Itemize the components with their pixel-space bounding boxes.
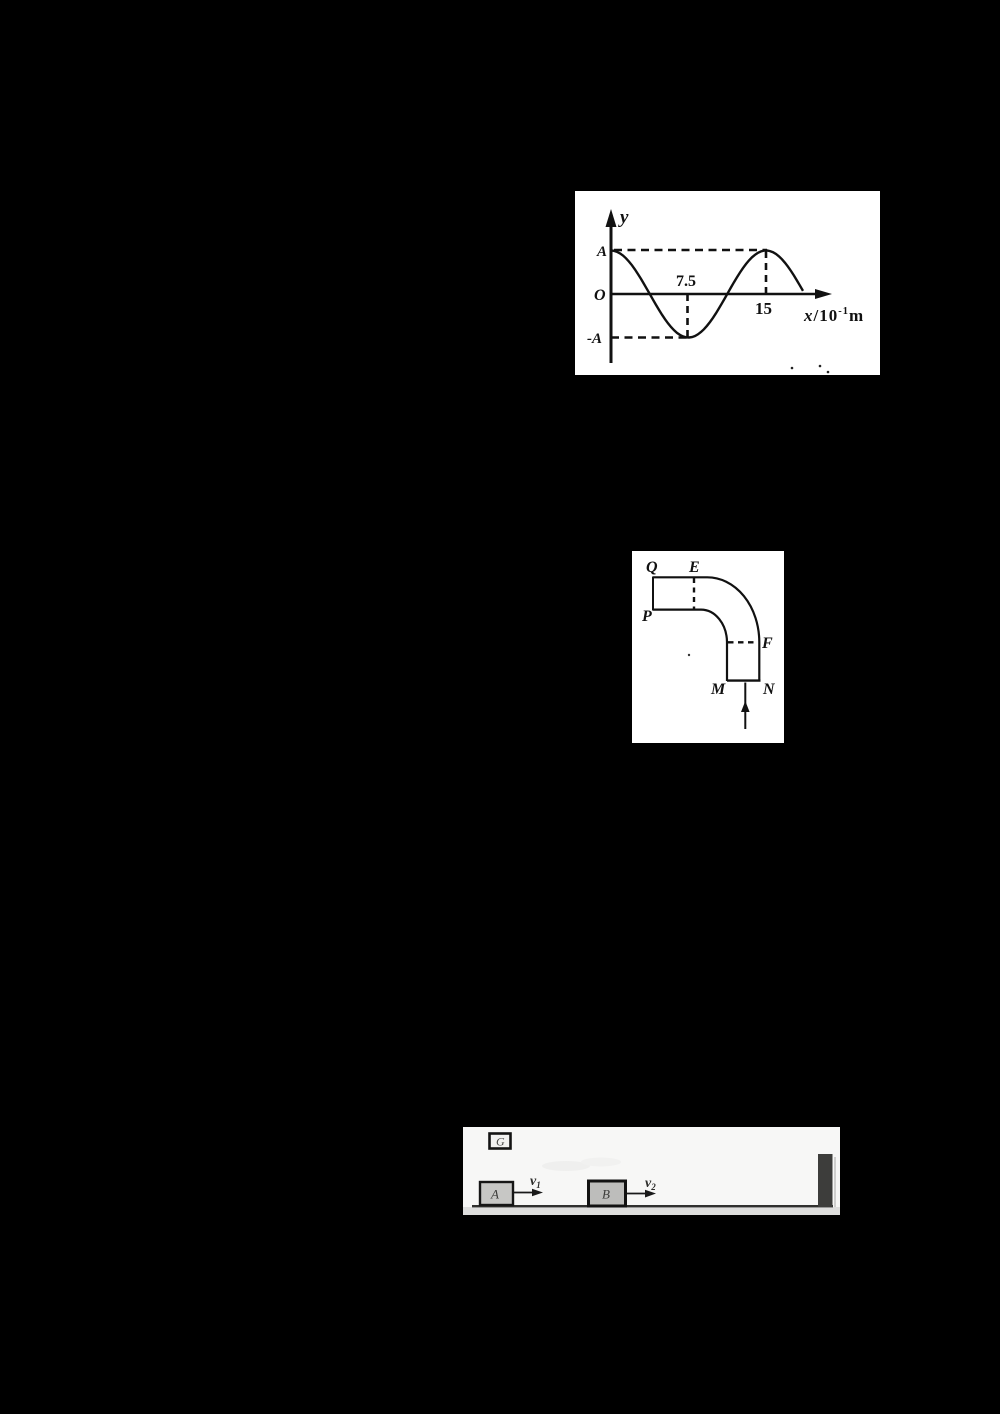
svg-text:E: E (688, 559, 700, 576)
svg-text:A: A (596, 244, 607, 260)
tube outer wall: top edge + outer bend + right wall (653, 577, 759, 680)
ground line (472, 1205, 833, 1207)
svg-text:B: B (602, 1187, 610, 1202)
wall shade line (834, 1157, 836, 1207)
svg-text:-A: -A (587, 331, 602, 347)
dashed section line at E (693, 578, 695, 609)
panel 2: curved tube PQEF MN (632, 551, 784, 743)
panel 3: photo of blocks A and B sliding toward wall (463, 1127, 840, 1215)
svg-text:M: M (710, 681, 726, 698)
velocity arrow v2 (627, 1190, 656, 1198)
tube left opening Q-P (652, 577, 654, 611)
wave curve (611, 251, 803, 338)
svg-text:F: F (761, 635, 773, 652)
svg-text:Q: Q (646, 559, 658, 576)
speck 1 (791, 367, 794, 370)
tube bottom opening M-N (727, 679, 761, 681)
svg-text:v2: v2 (645, 1176, 656, 1192)
svg-text:N: N (762, 681, 776, 698)
dashed line at +A from axis to crest (614, 249, 767, 252)
speck 3 (827, 371, 830, 374)
strip below ground (463, 1207, 840, 1215)
y-axis (606, 209, 617, 363)
inflow arrow below MN (741, 683, 750, 730)
velocity arrow v1 (514, 1189, 543, 1197)
svg-text:O: O (594, 287, 606, 304)
faint smudge (542, 1161, 590, 1171)
svg-text:G: G (496, 1135, 505, 1149)
speck 2 (819, 365, 822, 368)
wall at right (818, 1154, 833, 1207)
svg-text:15: 15 (755, 299, 772, 318)
block B (589, 1181, 626, 1206)
dashed section line at F (728, 641, 758, 643)
svg-text:A: A (490, 1187, 499, 1202)
block A (480, 1182, 513, 1205)
panel 1: wave graph y vs x (575, 191, 880, 375)
faint smudge 2 (581, 1158, 621, 1167)
dashed vertical at 7.5 to trough (686, 294, 689, 337)
svg-text:7.5: 7.5 (676, 273, 696, 290)
svg-text:y: y (618, 207, 629, 228)
x-axis (611, 289, 832, 299)
tube inner wall: bottom edge + inner bend + left wall (653, 610, 727, 681)
svg-text:P: P (641, 608, 652, 625)
svg-text:v1: v1 (530, 1174, 541, 1190)
dashed line at -A from axis to trough (611, 336, 687, 339)
ink dot (688, 654, 690, 656)
dashed vertical at 15 from crest to axis (765, 251, 768, 294)
svg-text:x/10-1m: x/10-1m (803, 306, 864, 325)
box G (490, 1134, 511, 1149)
